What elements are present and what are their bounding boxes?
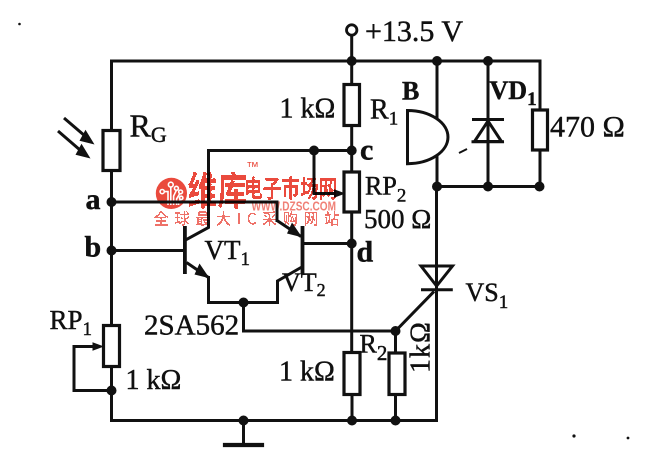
junction rail-R1 (347, 56, 357, 66)
watermark text 电子市场网 (246, 176, 336, 200)
resistor R1 (344, 85, 360, 126)
svg-text:1 kΩ: 1 kΩ (280, 94, 336, 125)
wire VT1 collector (187, 151, 209, 240)
junction 470 bottom (535, 182, 545, 192)
terminal +13.5V (347, 25, 357, 35)
wire VT2 collector (278, 268, 302, 303)
resistor R2 (344, 353, 360, 395)
wire R1 to RP2 through c (350, 126, 353, 173)
svg-text:VT1: VT1 (205, 235, 251, 270)
node b (107, 246, 117, 256)
wire RG to RP1 (through a,b) (110, 170, 113, 326)
wire RP1 wiper (74, 347, 112, 391)
light arrow 2 (58, 131, 80, 150)
resistor 1k gate (389, 353, 405, 395)
wire top rail (112, 60, 541, 63)
wire B to mid wire (436, 155, 439, 187)
junction common emitter (239, 298, 249, 308)
VT1 emitter arrow (187, 263, 209, 278)
wire rail right corner to 470 (539, 61, 542, 110)
wire R2 bottom (351, 395, 354, 421)
wire RP1 bottom (110, 366, 113, 421)
junction ground (239, 416, 249, 426)
wire common drop (242, 303, 245, 332)
svg-text:R2: R2 (360, 330, 388, 366)
wire mid horizontal (437, 185, 540, 188)
wire node a to VT2 emitter (112, 202, 278, 221)
svg-text:470 Ω: 470 Ω (550, 111, 625, 144)
speck (459, 149, 467, 153)
potentiometer RP1 body (104, 326, 120, 367)
diode VD1 (475, 121, 502, 142)
resistor RG (103, 131, 120, 171)
wire RP2 wiper (314, 151, 336, 194)
wire common emitter bottom (209, 301, 278, 304)
svg-text:500 Ω: 500 Ω (364, 204, 431, 234)
wire gate resistor top (394, 331, 397, 353)
junction RP1 wiper (107, 386, 117, 396)
wire VT1 emitter vertical (207, 278, 210, 303)
svg-text:RG: RG (130, 108, 167, 148)
buzzer B (408, 111, 448, 164)
junction wiper-c-wire (309, 146, 319, 156)
svg-text:+13.5 V: +13.5 V (365, 15, 463, 48)
svg-text:™: ™ (246, 159, 259, 174)
wire rail to VD1 (487, 61, 490, 187)
svg-text:R1: R1 (370, 95, 398, 130)
ground (242, 421, 245, 444)
node c (347, 146, 357, 156)
wire emitter to gate node (244, 330, 396, 333)
watermark text 全球最大IC采购网站 (154, 211, 339, 226)
svg-text:2SA562: 2SA562 (144, 310, 239, 342)
junction VD1 bottom (483, 182, 493, 192)
wire VT2 base to d (304, 242, 352, 245)
svg-text:a: a (86, 183, 101, 216)
thyristor VS1 (421, 266, 453, 286)
speck (572, 434, 575, 437)
potentiometer RP2 body (344, 172, 360, 212)
light arrow 1 (64, 118, 85, 136)
speck (18, 23, 21, 26)
node a (107, 197, 117, 207)
wire node c line (209, 149, 352, 152)
watermark logo circle (156, 178, 187, 209)
svg-text:1 kΩ: 1 kΩ (126, 365, 182, 396)
svg-text:1 kΩ: 1 kΩ (279, 357, 335, 388)
junction B bottom (432, 182, 442, 192)
wire left drop to RG (110, 61, 113, 131)
svg-text:RP2: RP2 (365, 172, 406, 207)
junction rail-B (432, 56, 442, 66)
speck (627, 437, 630, 440)
svg-text:VS1: VS1 (466, 278, 509, 313)
junction gate node (391, 326, 401, 336)
wire mid to VS1 anode and cathode down (435, 187, 438, 421)
wire +V terminal drop (350, 35, 353, 61)
svg-text:RP1: RP1 (50, 305, 93, 340)
RP2 wiper arrow (334, 189, 346, 198)
watermark text 维库 (188, 172, 246, 209)
wire RP2 to R2 through d (350, 212, 353, 354)
svg-text:B: B (402, 77, 419, 106)
svg-text:b: b (85, 231, 102, 264)
wire rail to B (436, 61, 439, 119)
junction R2 bottom (347, 416, 357, 426)
node d (347, 239, 357, 249)
junction gate res bottom (391, 416, 401, 426)
transistor VT2 base bar (301, 226, 305, 274)
wire bottom rail (112, 419, 437, 422)
wire rail to R1 (350, 61, 353, 85)
wire gate resistor bottom (394, 395, 397, 421)
svg-text:WWW.DZSC.COM: WWW.DZSC.COM (252, 199, 337, 214)
svg-text:c: c (360, 134, 373, 167)
resistor 470 (533, 110, 548, 150)
junction rail-VD1 (483, 56, 493, 66)
VT2 emitter arrow (277, 221, 301, 237)
wire 470 to mid wire (539, 150, 542, 187)
RP1 wiper arrow (93, 342, 105, 351)
svg-text:1kΩ: 1kΩ (405, 321, 436, 373)
svg-text:VD1: VD1 (490, 76, 537, 110)
wire node b to VT1 base (112, 249, 184, 252)
transistor VT1 base bar (183, 226, 187, 274)
svg-text:VT2: VT2 (282, 268, 326, 300)
svg-text:d: d (357, 236, 374, 269)
wire VS1 gate (396, 293, 434, 332)
